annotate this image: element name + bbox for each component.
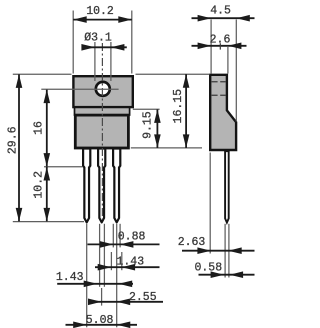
- svg-text:Ø3.1: Ø3.1: [84, 31, 112, 44]
- ext 10.2 right: [131, 11, 133, 74]
- arrowhead 29.6 top: [16, 74, 23, 88]
- svg-text:2.55: 2.55: [129, 291, 157, 304]
- ext body bottom (9.15/16.15): [131, 147, 202, 149]
- ext lead3 narrow left (0.88): [112, 224, 114, 248]
- arrowhead 2.55 right: [117, 299, 131, 306]
- arrowhead 16.15 bottom: [183, 134, 190, 148]
- dim line 1.43 right: [95, 266, 160, 268]
- ext side lead right (0.58): [228, 224, 230, 278]
- dim line 9.15: [156, 109, 158, 147]
- arrowhead 16.15 top: [183, 74, 190, 88]
- svg-text:29.6: 29.6: [6, 126, 19, 154]
- horizontal centerline through hole / ext for 16: [41, 88, 118, 90]
- arrowhead 2.6 right: [228, 43, 242, 50]
- mounting hole: [96, 82, 110, 96]
- svg-text:10.2: 10.2: [33, 171, 46, 199]
- ext lead3 narrow right (0.88): [119, 224, 121, 248]
- svg-text:1.43: 1.43: [116, 256, 144, 269]
- dim line 0.58: [199, 274, 255, 276]
- vertical centerline: [101, 43, 103, 220]
- ext lead2 left (1.43): [99, 224, 101, 287]
- arrowhead 9.15 bottom: [154, 134, 161, 148]
- arrowhead 10.2b bottom: [44, 208, 51, 222]
- dim line 29.6: [18, 74, 20, 221]
- side view: package profile: [210, 75, 236, 150]
- arrowhead 1.43L left: [84, 281, 98, 288]
- arrowhead 4.5 right: [236, 15, 250, 22]
- ext side body left (2.63): [209, 153, 211, 254]
- arrowhead 5.08 left: [73, 322, 87, 328]
- arrowhead 16 top: [44, 90, 51, 104]
- arrowhead 2.63 left: [197, 247, 211, 254]
- arrowhead 10.2b top: [44, 167, 51, 181]
- ext lead2 center (2.55): [101, 288, 103, 306]
- dim line 2.63: [182, 250, 255, 252]
- front view: molded body: [75, 115, 128, 148]
- svg-text:16.15: 16.15: [172, 89, 185, 124]
- ext side right (4.5): [235, 20, 237, 122]
- TO-220 front view: mounting tab: [73, 76, 132, 107]
- ext lead2 right (1.43): [103, 224, 105, 287]
- arrowhead 0.88 left: [100, 241, 114, 248]
- svg-text:16: 16: [32, 121, 45, 135]
- arrowhead 5.08 right: [117, 322, 131, 328]
- dim line 1.43 left: [57, 283, 133, 285]
- arrowhead 4.5 left: [198, 15, 212, 22]
- lead 1 (left): [83, 149, 90, 223]
- ext dia3.1 right: [110, 42, 112, 81]
- ext tab top right (16.15): [136, 73, 210, 75]
- ext lead3 wide right (1.43): [121, 252, 123, 270]
- ext tab bottom (9.15): [133, 108, 160, 110]
- arrowhead 10.2 right: [118, 16, 132, 23]
- dim line 16.15: [185, 74, 187, 148]
- ext side tab right (2.6): [227, 47, 229, 74]
- ext lead1 center (5.08): [86, 224, 88, 327]
- ext lead shoulder (16/10.2): [44, 166, 83, 168]
- front view: step band below tab: [75, 107, 130, 115]
- ext side lead left (2.63/0.58): [224, 224, 226, 278]
- ext bottom of leads (29.6/10.2): [13, 221, 84, 223]
- arrowhead dia3.1 left: [81, 44, 95, 51]
- dim line 0.88: [88, 243, 160, 245]
- center tick on 2.6 dim: [219, 43, 221, 49]
- arrowhead 2.63 right: [228, 247, 242, 254]
- arrowhead 2.55 left: [88, 299, 102, 306]
- ext 10.2 left: [72, 11, 74, 74]
- svg-text:2.6: 2.6: [210, 34, 231, 47]
- svg-text:10.2: 10.2: [86, 5, 114, 18]
- svg-text:9.15: 9.15: [141, 111, 154, 139]
- arrowhead 2.6 left: [198, 43, 212, 50]
- side view: lead: [225, 151, 229, 222]
- svg-text:5.08: 5.08: [86, 314, 114, 327]
- ext top of package (29.6): [13, 73, 72, 75]
- ext side left (4.5): [210, 20, 212, 74]
- arrowhead 9.15 top: [154, 109, 161, 123]
- ext lead3 wide left (1.43): [110, 252, 112, 270]
- svg-text:0.88: 0.88: [118, 231, 146, 244]
- svg-text:1.43: 1.43: [56, 271, 84, 284]
- arrowhead 10.2 left: [73, 16, 87, 23]
- dim line 10.2 bottom: [46, 167, 48, 221]
- dim line dia 3.1: [83, 46, 127, 48]
- ext lead3 center (2.55/5.08): [116, 224, 118, 327]
- dim line 4.5: [192, 17, 255, 19]
- svg-text:2.63: 2.63: [178, 236, 206, 249]
- hidden hole line upper: [212, 81, 226, 83]
- svg-text:0.58: 0.58: [194, 262, 222, 275]
- dim line 16: [46, 90, 48, 167]
- arrowhead 1.43R right: [122, 264, 136, 271]
- dim line 2.6: [192, 45, 247, 47]
- arrowhead 1.43L right: [119, 281, 133, 288]
- arrowhead 0.58 right: [230, 271, 244, 278]
- dim line 2.55: [88, 301, 163, 303]
- arrowhead 1.43R left: [98, 264, 112, 271]
- ext dia3.1 left: [94, 42, 96, 81]
- arrowhead dia3.1 right: [111, 44, 125, 51]
- arrowhead 0.58 left: [211, 271, 225, 278]
- dim line 10.2 top: [73, 19, 132, 21]
- svg-text:4.5: 4.5: [210, 5, 231, 18]
- lead 2 (middle): [98, 149, 105, 223]
- dim line 5.08: [66, 324, 138, 326]
- arrowhead 29.6 bottom: [16, 208, 23, 222]
- arrowhead 16 bottom: [44, 153, 51, 167]
- hidden hole line lower: [212, 94, 226, 96]
- arrowhead 0.88 right: [120, 241, 133, 248]
- lead 3 (right): [113, 149, 120, 223]
